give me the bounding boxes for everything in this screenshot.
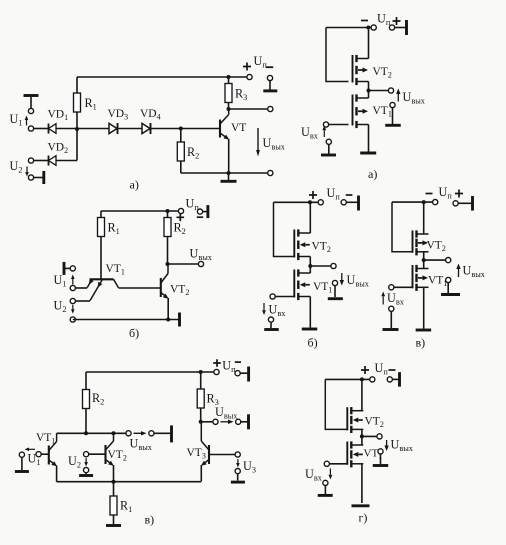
wire +Un ground lead M1 [395,27,406,29]
ground bar a [221,180,237,183]
plus sign M2 [309,191,317,199]
transistor VT1 M4 [347,441,363,467]
transistor VT [220,109,229,138]
arrow VT1 emitter1 [89,279,94,285]
wire VT1 source down M4 [361,464,363,503]
resistor R1 b [100,211,102,218]
node R3 bottom v [199,420,203,424]
terminal U2 upper b [70,298,75,303]
wire top rail v [86,371,217,373]
terminal -Un M3 [433,200,438,205]
node output M3 [422,258,426,262]
terminal +Un M3 [453,201,458,206]
wire Uvx ground stub M4 [324,486,326,495]
ground bar Un M2 [357,196,360,211]
arrow Uvx up M1 [323,130,325,137]
wire VT2 source to node M4 [361,429,363,436]
wire collector bus v [57,432,129,434]
svg-text:R3: R3 [235,87,247,103]
terminal U3 ground v [235,469,240,474]
transistor VT2 M4 [347,407,363,433]
plus sign b [177,214,185,222]
ground bar output M4 [373,464,389,467]
ground bar U1 b [63,262,66,275]
wire Uvx to gate M2 [275,296,294,298]
wire U2 ground lead [34,177,43,179]
arrow Uvyh a [257,128,259,150]
node emitter rail b [166,318,170,322]
wire output right to ground v [241,421,248,423]
wire Un ground lead b [203,211,207,213]
svg-text:Uвых: Uвых [403,90,426,106]
terminal Uvx M1 [323,122,328,127]
terminal -Un M1 [371,25,376,30]
arrow VT1 emitter v [51,461,57,466]
terminal Un minus b [197,209,202,214]
wire top rail M1 [326,27,371,29]
terminal Uvx M4 [324,461,329,466]
minus sign v [235,361,241,363]
resistor R2 v [85,372,87,390]
wire output ground stub M4 [380,454,382,464]
wire -Un to ground a [269,81,271,90]
arrow Uvyh down M2 [341,273,343,280]
terminal output M2 [331,263,336,268]
output mid v: terminal 2 [149,431,154,436]
arrow U1 left v [29,448,35,450]
node top rail M4 [360,377,364,381]
terminal output a [268,106,273,111]
arrow VT2 emitter b [163,294,169,299]
svg-text:VD2: VD2 [48,142,69,156]
terminal U1 ground v [19,452,24,457]
arrow U2 down [26,167,28,173]
svg-text:Uвх: Uвх [305,467,323,483]
minus sign Un a [266,66,273,68]
terminal Uvx M3 [389,285,394,290]
resistor R1 [76,77,78,93]
svg-text:VD4: VD4 [140,108,161,122]
wire output M2 [310,265,333,267]
ground bar Un M4 [398,372,401,387]
transistor VT1 M2 [294,269,310,300]
node emitter bottom [227,171,231,175]
svg-text:VD3: VD3 [108,108,129,122]
terminal output M3 [446,258,451,263]
wire Un ground lead v [240,372,247,374]
svg-text:Uвых: Uвых [391,438,414,454]
wire VT2 drain up M3 [423,202,425,234]
wire VT3 base to U3 v [209,454,238,456]
terminal U3 v [235,452,240,457]
terminal output ground M4 [378,449,383,454]
output right v: terminal 2 [236,419,241,424]
wire VT emitter down [228,139,230,173]
terminal U1 upper b [70,266,75,271]
wire bottom rail b [73,319,179,321]
wire VT1 drain up M1 [368,91,370,99]
arrow output mid v [134,432,142,434]
plus sign M1 [393,17,401,25]
wire VT2 source to node M2 [309,257,311,267]
svg-text:Uвых: Uвых [463,264,486,280]
svg-text:Uп: Uп [327,186,341,202]
circuit a) DTL gate [10,54,286,192]
wire VD2 to riser [56,160,77,162]
wire U1 ground stub v [21,457,23,470]
terminal Uvx ground M2 [268,317,273,322]
arrow VT1 emitter2 [98,282,103,288]
wire bottom rail a [181,172,270,174]
ground bar output mid v [170,425,173,442]
ground bar Uvx M2 [264,328,279,331]
arrow output right v [221,421,229,423]
wire VT1 source down M1 [368,125,370,152]
node top rail M3 [422,200,426,204]
wire top rail b [101,210,179,212]
svg-text:Uп: Uп [222,359,236,375]
arrow U2 down b [72,305,74,310]
terminal U1 v [36,452,41,457]
svg-text:Uвых: Uвых [190,247,213,263]
terminal U2 ground v [84,468,89,473]
wire top rail M4 [325,378,369,380]
circuit g) MOSFET pair bottom right [305,361,414,525]
ground bar output right v [247,414,250,429]
ground bar Uvx M4 [318,494,333,497]
diode VD1 [49,124,57,134]
wire top rail a [77,76,250,78]
terminal +Un M2 [341,200,346,205]
ground bar Uvx M3 [383,328,399,331]
svg-text:VT2: VT2 [170,284,189,298]
wire VD3 to VD4 [118,128,144,130]
svg-text:б): б) [129,326,139,340]
svg-text:Uп: Uп [186,197,200,213]
svg-text:R2: R2 [187,145,199,161]
terminal Uvx ground M4 [323,480,328,485]
ground bar VT1 source M1 [360,152,376,155]
wire U1 ground lead b [65,267,70,269]
svg-text:R2: R2 [92,391,104,407]
wire U3 ground stub v [237,474,239,481]
transistor VT3 v mirrored [201,422,209,464]
ground bar output M3 [441,293,460,296]
ground bar VT1 source M3 [416,329,432,332]
transistor VT1 v [49,433,57,464]
ground bar R1 v [106,524,121,527]
resistor R3 v [200,372,202,389]
wire VT2 emitter down v [113,465,115,482]
wire output mid to ground v [154,432,171,434]
wire U1 to VD1 [34,128,49,130]
ground bar -Un a [263,89,277,92]
wire VD1 to node A [56,128,77,130]
arrow Uvx down M4 [329,469,331,475]
wire Uvx ground stub M2 [270,322,272,328]
wire gate loop M3 [392,202,413,252]
plus sign M4 [361,366,369,374]
node output M1 [367,89,371,93]
terminal U1 upper [28,108,33,113]
arrow Uvx up M3 [382,296,384,304]
svg-text:Uп: Uп [254,54,268,70]
output mid v: terminal 1 [126,431,131,436]
node A diode junction [75,127,79,131]
circuit v) logic gate with VT1 VT2 VT3 [15,359,256,527]
wire emitter1 to U1 b [75,287,87,289]
wire gate loop M1 [326,28,349,82]
wire Uvx ground stub M1 [328,144,330,153]
wire VT1 drain up M3 [423,260,425,268]
wire output M4 [362,435,380,437]
node output M2 [308,264,312,268]
arrow Uvx down M2 [263,303,265,310]
wire output ground stub M1 [392,108,394,124]
wire bottom rail v [57,481,202,483]
transistor VT2 b [161,264,168,297]
svg-text:VT: VT [231,122,246,134]
resistor R1 v [113,482,115,496]
wire VT2 drain up M4 [361,379,363,410]
wire Uvx to gate M4 [329,463,347,465]
wire U2 to VT2 base v [89,453,106,455]
node VT2 collector v [112,431,116,435]
diode VD3 [109,123,118,134]
wire top rail M3 [392,201,433,203]
svg-text:VT2: VT2 [365,416,384,430]
svg-text:VD1: VD1 [48,109,69,123]
svg-text:R1: R1 [85,96,97,112]
node top rail / R3 [227,75,231,79]
node output b [166,262,170,266]
svg-text:Uвх: Uвх [387,291,405,307]
ground bar Un b [206,205,209,218]
node top rail M2 [308,200,312,204]
svg-text:Uп: Uп [377,12,391,28]
circuit a) CMOS-type pair top-right [301,12,426,182]
svg-text:Uвых: Uвых [347,273,370,289]
terminal output ground M1 [390,102,395,107]
wire Uvx ground stub M3 [390,311,392,328]
terminal +Un a [247,74,252,79]
circuit b) TTL gate [54,197,213,341]
ground bar U2 v [79,474,93,477]
wire VT3 emitter down v [200,465,202,481]
wire VT1 source down M2 [309,297,311,328]
node top rail M1 [366,26,370,30]
svg-text:U1: U1 [10,112,23,128]
wire collector to output [229,108,271,110]
wire VD4 to base VT [151,128,220,130]
terminal output M4 [377,434,382,439]
terminal Uvx ground M1 [326,139,331,144]
terminal U2 upper [28,158,33,163]
resistor R3 [228,77,230,84]
arrow Uvyh down M4 [386,440,388,446]
wire emitter2 to U2 b [75,300,90,302]
transistor VT2 v [106,433,114,464]
terminal Un v [214,369,219,374]
transistor VT2 M3 [413,230,429,255]
svg-text:б): б) [308,336,318,350]
terminal Un minus v [235,371,240,376]
transistor VT2 M1 [353,55,369,85]
transistor VT1 M3 [413,265,429,291]
wire riser VD2 to node A [76,129,78,161]
svg-text:в): в) [416,336,426,350]
terminal -Un M2 [318,200,323,205]
plus sign v [213,359,221,367]
terminal -Un a [267,75,272,80]
svg-text:Uп: Uп [375,361,389,377]
wire output ground stub M2 [334,286,336,297]
output right v: terminal 1 [213,419,218,424]
terminal +Un M4 [370,377,375,382]
wire output M1 [369,90,392,92]
node R2 top [179,127,183,131]
svg-text:VT3: VT3 [187,447,206,461]
ground bar Uvx M1 [321,154,336,157]
wire Un ground lead M4 [392,378,398,380]
svg-text:VT2: VT2 [312,241,331,255]
terminal bottom right a [268,170,273,175]
wire VT1 source down M3 [423,287,425,328]
svg-text:Uвых: Uвых [215,405,238,421]
resistor R2 b [167,211,169,218]
terminal U2 v [84,452,89,457]
ground bar U1 top [24,94,39,97]
arrow U1 up b [72,279,74,285]
node rail R2 b [166,209,170,213]
arrow U1 up [26,120,28,126]
node R1 top v [112,480,116,484]
ground stub a [228,173,230,180]
minus sign M3 [426,193,433,195]
wire VT1 drain up M4 [361,436,363,445]
svg-text:R2: R2 [174,221,186,237]
terminal +Un M1 [389,25,394,30]
wire output b [168,263,202,265]
wire U1 to VT1 base v [41,453,49,455]
svg-text:U2: U2 [68,454,81,470]
wire VT1 collector to VT2 base [119,287,161,289]
svg-text:U2: U2 [54,299,67,315]
wire VT1 emitter down v [56,466,58,482]
terminal U2 lower [28,175,33,180]
arrow U2 down v [85,458,87,462]
plus sign Un a [243,63,251,71]
wire U2 to VD2 [34,160,49,162]
minus sign M1 [361,20,368,22]
plus sign M3 [455,190,463,198]
diode VD4 [142,123,151,134]
circuit b) MOSFET pair middle [262,186,370,350]
terminal U1 lower [28,126,33,131]
wire VT1 drain up M2 [309,266,311,273]
svg-text:Uп: Uп [439,185,453,201]
ground bar output M1 [385,124,401,127]
svg-text:VT1: VT1 [313,281,332,295]
wire gate loop M2 [274,202,295,256]
wire gate loop M4 [325,379,347,429]
terminal Un b [178,208,183,213]
ground bar U3 v [231,481,245,484]
transistor VT2 M2 [294,229,310,260]
svg-text:VT2: VT2 [373,66,392,80]
node output M4 [360,434,364,438]
ground bar bottom b [178,313,181,327]
svg-text:VT1: VT1 [106,263,125,277]
svg-text:а): а) [368,167,377,181]
svg-text:VT1: VT1 [428,275,447,289]
wire U1 ground stub [30,96,32,109]
arrow Uvyh up M1 [397,94,399,102]
wire VT2 emitter down b [167,298,169,320]
wire Un ground lead M2 [346,201,357,203]
svg-text:R1: R1 [108,221,120,237]
wire U2 ground stub v [85,473,87,474]
arrow VT2 emitter v [108,461,114,466]
resistor R2 [180,129,182,143]
svg-text:U1: U1 [54,273,67,289]
ground bar VT1 source M4 [352,504,370,507]
svg-text:U2: U2 [10,159,23,175]
svg-text:Uвх: Uвх [301,125,319,141]
transistor VT1 M1 [353,94,369,128]
circuit v) MOSFET pair middle right [381,185,486,350]
transistor VT1 multi-emitter [87,279,118,300]
terminal Uvx ground M3 [389,306,394,311]
svg-text:Uвх: Uвх [269,303,287,319]
wire Uvx to gate M3 [394,286,413,288]
svg-text:Uвых: Uвых [263,136,286,152]
terminal U1 lower b [70,285,75,290]
ground bar Un v [247,367,250,382]
terminal output ground M2 [332,280,337,285]
ground bar output M2 [328,297,343,300]
svg-text:U3: U3 [243,459,256,475]
terminal -Un M4 [387,377,392,382]
ground bar +Un M1 [405,20,408,35]
svg-text:VT2: VT2 [108,449,127,463]
wire node A to VD3 [77,128,110,130]
minus sign b [197,216,203,218]
wire output ground stub M3 [447,283,449,293]
terminal output M1 [388,88,393,93]
wire top rail M2 [274,201,319,203]
ground bar U2 [42,171,45,184]
arrow U3 down v [237,459,239,463]
diode VD2 [49,156,57,166]
ground bar Un M3 [471,196,474,211]
node R2 bottom v [84,431,88,435]
node VT collector [227,107,231,111]
wire VT2 source to node M3 [423,252,425,260]
arrow VT3 emitter v [201,461,207,466]
arrow Uvyh up M3 [458,269,460,277]
svg-text:г): г) [359,511,368,525]
wire output M3 [424,259,449,261]
svg-text:а): а) [130,178,139,192]
wire VT2 drain up M2 [309,202,311,233]
minus sign M2 [346,194,353,196]
svg-text:R1: R1 [120,499,132,515]
svg-text:VT2: VT2 [427,240,446,254]
wire VT2 source to node M1 [368,82,370,91]
svg-text:VT1: VT1 [36,432,55,446]
svg-text:VT1: VT1 [373,105,392,119]
